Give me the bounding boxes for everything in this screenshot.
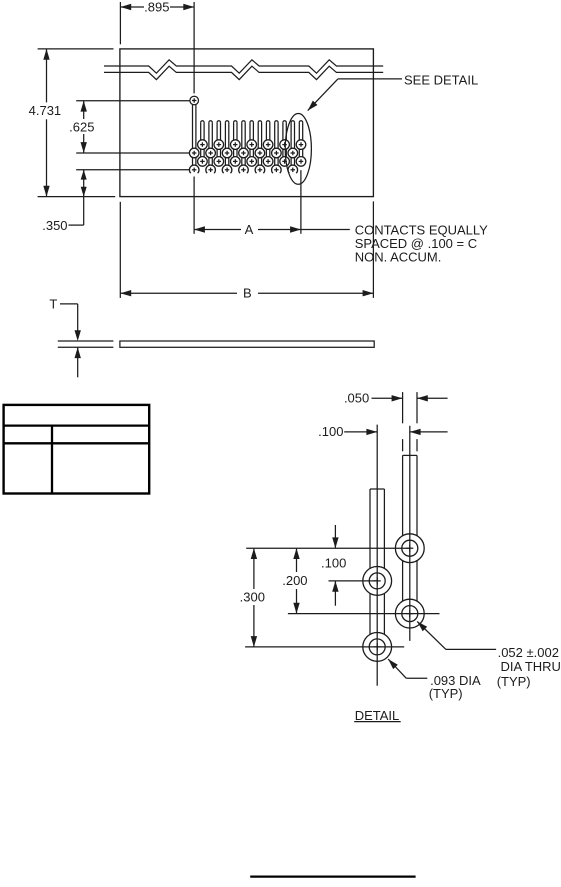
svg-text:.625: .625	[69, 119, 94, 134]
svg-text:NON. ACCUM.: NON. ACCUM.	[355, 250, 442, 265]
leader .052 DIA THRU	[417, 622, 561, 689]
extension line from board bottom-left down	[119, 202, 121, 298]
dimension .100 pitch	[318, 424, 447, 439]
side view surface extension lines	[58, 341, 114, 347]
dimension A	[194, 222, 350, 237]
dimension B	[120, 286, 373, 301]
label DETAIL	[354, 708, 401, 723]
title block table	[4, 405, 150, 494]
svg-text:.200: .200	[282, 573, 307, 588]
detail row line R3	[288, 613, 440, 615]
dimension .350	[42, 170, 86, 233]
board outline (top view)	[120, 49, 374, 197]
SEE DETAIL leader	[308, 79, 402, 111]
dimension .200	[282, 548, 307, 613]
svg-text:.300: .300	[240, 590, 265, 605]
contact finger traces (14 contacts)	[193, 105, 303, 170]
svg-text:.895: .895	[144, 0, 169, 15]
svg-text:.100: .100	[321, 555, 346, 570]
note CONTACTS EQUALLY SPACED	[355, 223, 488, 265]
pad crosses	[192, 142, 303, 172]
svg-text:(TYP): (TYP)	[497, 674, 531, 689]
detail left centerline	[376, 425, 378, 686]
svg-text:.050: .050	[344, 390, 369, 405]
detail pad left R2	[363, 567, 392, 596]
side view bar	[120, 341, 374, 347]
svg-text:B: B	[243, 286, 252, 301]
extension line row R4	[76, 169, 190, 171]
dimension T	[49, 297, 81, 378]
extension line from contact 14 down	[300, 170, 302, 234]
dimension .100 row offset	[321, 525, 346, 606]
dimension .895	[120, 0, 194, 93]
svg-text:T: T	[49, 297, 57, 312]
svg-text:.350: .350	[42, 218, 67, 233]
detail right trace outline	[403, 455, 417, 613]
detail right centerline	[409, 426, 411, 641]
svg-text:.052 ±.002: .052 ±.002	[498, 645, 559, 660]
dimension .050	[344, 390, 448, 405]
detail pad crosses	[374, 545, 414, 651]
dimension .300	[240, 548, 265, 647]
break line upper	[104, 60, 383, 73]
svg-text:A: A	[245, 222, 254, 237]
dimension 4.731	[29, 49, 116, 197]
detail pad right R1	[395, 534, 424, 563]
svg-text:DIA THRU: DIA THRU	[501, 659, 561, 674]
top pad of contact 1	[190, 96, 199, 105]
dimension .625	[69, 101, 94, 153]
label SEE DETAIL	[404, 73, 478, 88]
detail row line R4	[245, 646, 404, 648]
bottom rule	[250, 875, 415, 877]
detail ellipse around last contacts	[285, 113, 311, 184]
detail row line R2	[329, 580, 378, 582]
detail pad left R4	[363, 633, 392, 662]
svg-text:.100: .100	[318, 424, 343, 439]
detail row line R1	[246, 547, 410, 549]
extension line from board bottom-right down	[372, 201, 374, 298]
break line lower	[104, 66, 383, 79]
detail left trace outline	[370, 489, 384, 647]
svg-text:SEE DETAIL: SEE DETAIL	[404, 73, 478, 88]
leader .093 DIA	[388, 659, 481, 701]
extension line row R2	[76, 152, 190, 154]
extension line from contact 1 down	[193, 177, 195, 234]
svg-text:(TYP): (TYP)	[429, 686, 463, 701]
extension line at top contact center (y=100.8)	[76, 100, 191, 102]
detail .050 extension lines	[403, 392, 417, 451]
detail pad right R3	[395, 599, 424, 628]
svg-text:DETAIL: DETAIL	[355, 708, 400, 723]
svg-text:4.731: 4.731	[29, 103, 62, 118]
contact pads rows R1-R4	[189, 140, 305, 175]
